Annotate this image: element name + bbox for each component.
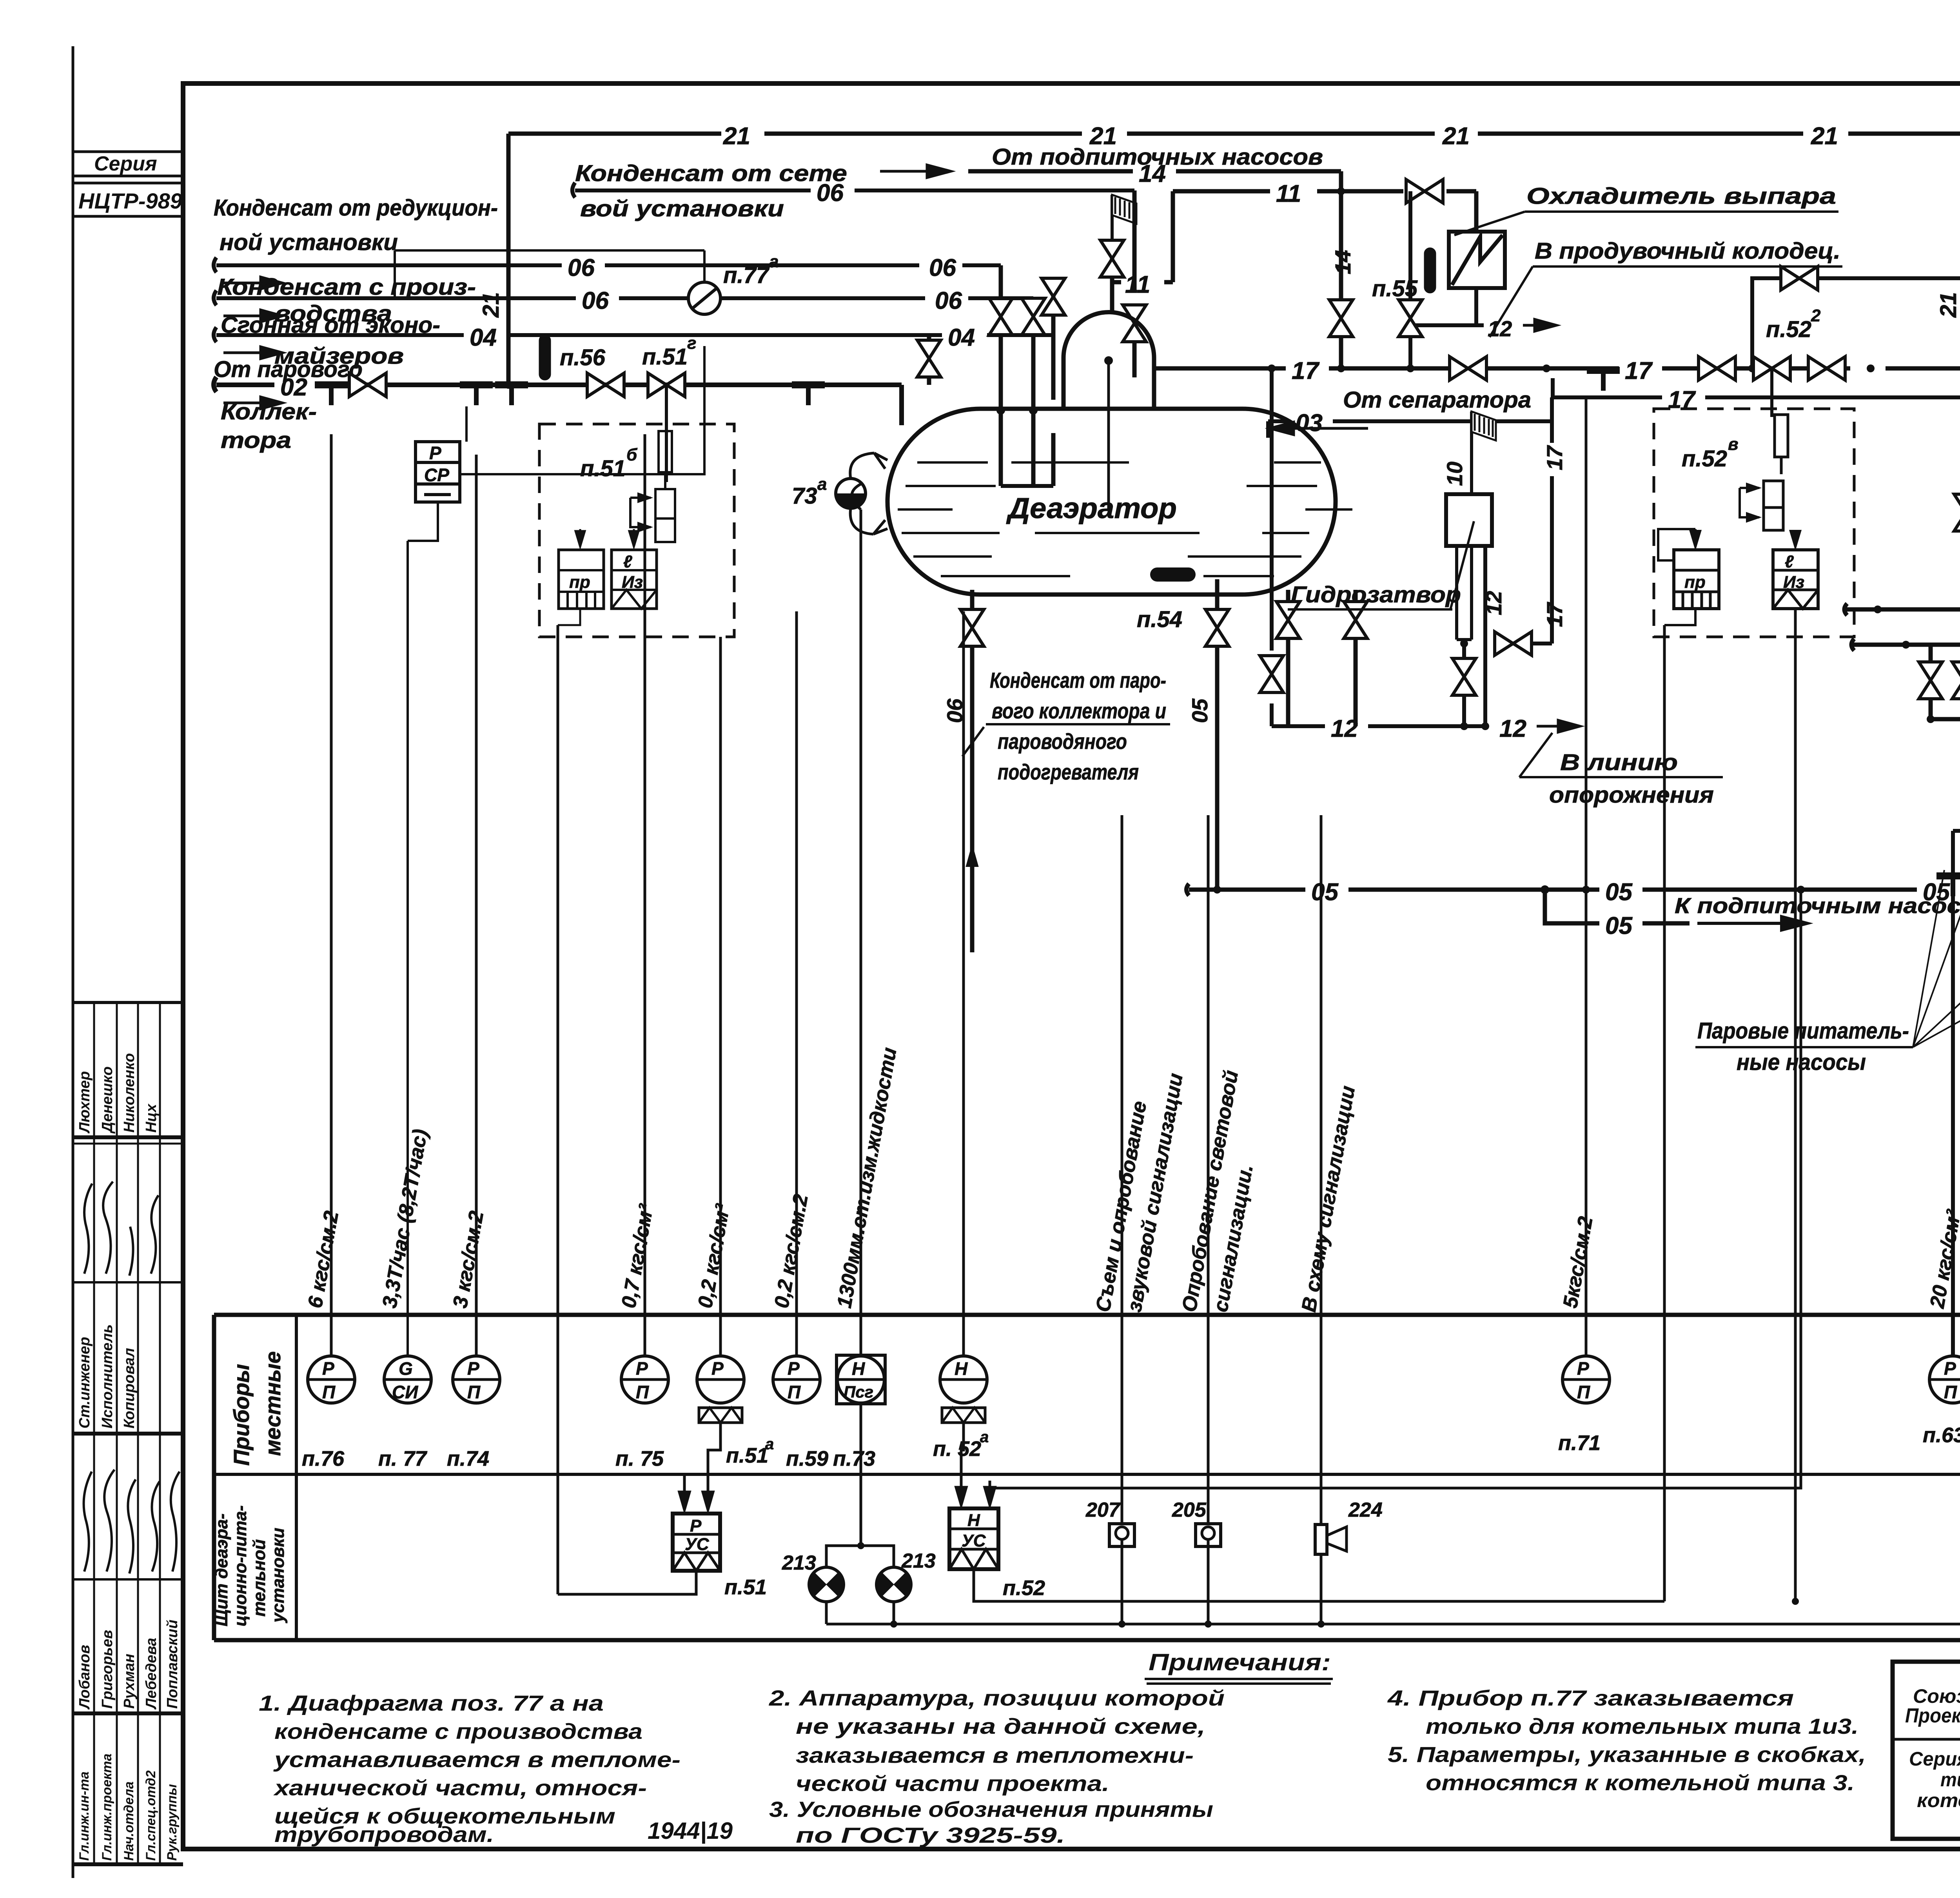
impulse line p.59 — [795, 611, 798, 1355]
svg-text:Исполнитель: Исполнитель — [99, 1324, 116, 1428]
water hatching inside tank — [898, 462, 1352, 576]
svg-text:02: 02 — [280, 374, 307, 401]
signature table column dividers — [94, 1002, 160, 1864]
svg-text:205: 205 — [1172, 1499, 1207, 1521]
svg-text:Гл.инж.ин-та: Гл.инж.ин-та — [77, 1771, 92, 1861]
impulse line p.75 — [644, 434, 646, 1355]
svg-text:05: 05 — [1605, 879, 1633, 906]
svg-text:21: 21 — [478, 292, 504, 318]
valve on 02 mid — [587, 373, 624, 397]
svg-text:4. Прибор п.77 заказывается: 4. Прибор п.77 заказывается — [1387, 1686, 1794, 1710]
NTsTR-989 box — [73, 183, 183, 216]
svg-text:пр: пр — [1684, 573, 1706, 592]
svg-text:04: 04 — [470, 324, 497, 351]
svg-text:Н: Н — [967, 1511, 980, 1530]
relay button 205 — [1196, 1524, 1221, 1546]
thermometer p.56 — [539, 335, 551, 380]
svg-text:только для котельных типа 1: только для котельных типа 1и3. — [1426, 1714, 1858, 1738]
input arrows into p.52 — [956, 1481, 995, 1505]
svg-text:подогревателя: подогревателя — [998, 760, 1139, 784]
svg-text:Союзмашстройпроект: Союзмашстройпроект — [1913, 1685, 1960, 1707]
gauge p.63 — [1923, 1356, 1960, 1447]
svg-text:вой установки: вой установки — [580, 196, 784, 221]
svg-text:а: а — [769, 252, 779, 271]
flowmeter p.77 — [378, 1356, 431, 1470]
svg-text:П: П — [1577, 1382, 1590, 1402]
svg-text:трубопроводам.: трубопроводам. — [274, 1822, 494, 1847]
svg-text:П: П — [636, 1382, 649, 1402]
lamp wiring to p.73 — [826, 1404, 894, 1567]
svg-text:Рук.группы: Рук.группы — [165, 1784, 180, 1861]
svg-text:Конденсат от паро-: Конденсат от паро- — [990, 668, 1166, 692]
pipe support on 17 — [1587, 370, 1620, 391]
signal line PR loop down — [558, 609, 580, 625]
IZ box in p.52v — [1773, 550, 1818, 609]
signal loop PR p.52v — [1664, 609, 1695, 625]
svg-text:Р: Р — [1944, 1358, 1956, 1379]
internal sparge pipe — [1107, 361, 1110, 509]
svg-text:Григорьев: Григорьев — [99, 1630, 116, 1709]
svg-text:а: а — [980, 1428, 989, 1446]
wire 21 riser left — [506, 134, 511, 385]
transmitter p.51a — [697, 1356, 774, 1467]
svg-text:Р: Р — [711, 1358, 724, 1379]
svg-text:06: 06 — [929, 254, 956, 281]
svg-text:П: П — [1944, 1382, 1957, 1402]
svg-text:224: 224 — [1348, 1499, 1383, 1521]
valve + drop to dome from 06a — [1132, 190, 1137, 377]
thermometer p.55 — [1424, 248, 1436, 293]
deaerator tank shell — [887, 409, 1336, 595]
svg-text:Н: Н — [955, 1358, 968, 1379]
relay button 207 — [1109, 1524, 1134, 1546]
strip label column divider — [295, 1315, 298, 1640]
note 4 and 5 — [1387, 1686, 1866, 1795]
svg-text:Конденсат с произ-: Конденсат с произ- — [217, 274, 476, 300]
pipe 06 reduktsionnaya — [214, 257, 1001, 272]
svg-text:213: 213 — [782, 1552, 816, 1574]
svg-text:06: 06 — [568, 254, 595, 281]
rotated department titles band 6 — [77, 1753, 180, 1861]
svg-text:Щит деаэра-: Щит деаэра- — [212, 1514, 231, 1626]
svg-text:21: 21 — [1936, 292, 1960, 318]
svg-text:П: П — [788, 1382, 801, 1402]
flag 10 on separator pot — [1472, 412, 1496, 457]
svg-text:Из: Из — [622, 573, 643, 592]
svg-text:п.71: п.71 — [1558, 1431, 1601, 1455]
leader lines to pumps — [1913, 798, 1960, 1047]
svg-text:1. Диафрагма поз. 77 а на: 1. Диафрагма поз. 77 а на — [259, 1691, 604, 1715]
pipe 14 — [968, 171, 1341, 368]
pipe 12 drain header — [1272, 724, 1485, 728]
svg-text:К подпиточным насосам: К подпиточным насосам — [1675, 893, 1960, 918]
svg-text:конденсате с производства: конденсате с производства — [274, 1719, 642, 1744]
svg-text:Серия унифицированных: Серия унифицированных — [1909, 1748, 1960, 1770]
signal line audio alarm — [1121, 815, 1123, 1524]
orifice p.77a — [688, 282, 720, 314]
pump A discharge to p.63 — [1953, 816, 1960, 1355]
dome vent line with flag — [1110, 240, 1114, 312]
valve drop 04 to vessel — [1051, 280, 1056, 486]
svg-text:06: 06 — [817, 179, 844, 207]
svg-text:устанавливается в тепломе-: устанавливается в тепломе- — [273, 1747, 681, 1772]
svg-text:ной установки: ной установки — [220, 230, 398, 255]
svg-text:п.52: п.52 — [1003, 1576, 1045, 1600]
svg-text:п.51: п.51 — [580, 456, 626, 481]
svg-text:12: 12 — [1499, 715, 1526, 742]
PR box in p.51b — [559, 550, 604, 609]
valve to hydroseal — [1495, 632, 1532, 655]
pipe supports on 02 — [315, 385, 348, 405]
svg-text:Р: Р — [322, 1358, 334, 1379]
svg-text:типовых проектов: типовых проектов — [1940, 1769, 1960, 1791]
p.51 output wire to valve servo — [558, 625, 696, 1594]
svg-text:Поплавский: Поплавский — [164, 1620, 181, 1709]
panel regulator N/US p.52 — [949, 1508, 998, 1569]
gauge p.71 — [1558, 1356, 1610, 1455]
drop 05 from tank bottom — [1215, 579, 1220, 890]
sheet trim line left — [72, 46, 74, 1878]
svg-text:тельной: тельной — [250, 1539, 269, 1617]
gauge p.76 — [302, 1356, 355, 1470]
svg-text:Р: Р — [467, 1358, 479, 1379]
svg-text:21: 21 — [1811, 123, 1838, 150]
svg-text:СР: СР — [424, 465, 449, 485]
signature table horizontal rules — [73, 1001, 183, 1004]
svg-text:Нач.отдела: Нач.отдела — [122, 1782, 136, 1861]
pipe 03 from separator — [1268, 421, 1552, 438]
svg-text:П: П — [467, 1382, 481, 1402]
IZ box in p.51b — [612, 550, 657, 609]
svg-text:п.51: п.51 — [726, 1444, 768, 1467]
svg-text:73: 73 — [792, 483, 817, 509]
svg-text:Р: Р — [636, 1358, 648, 1379]
svg-text:п.52: п.52 — [1682, 446, 1727, 471]
svg-text:п. 75: п. 75 — [615, 1447, 664, 1470]
svg-text:G: G — [399, 1358, 413, 1379]
svg-text:Конденсат от редукцион-: Конденсат от редукцион- — [214, 195, 498, 221]
positioner in p.51b — [655, 489, 675, 518]
rotated signature squiggles band 2 — [84, 1182, 158, 1276]
svg-text:п.59: п.59 — [786, 1447, 828, 1470]
svg-text:ческой части проекта.: ческой части проекта. — [796, 1771, 1109, 1796]
PR box in p.52v — [1674, 550, 1719, 609]
valve on 11 line — [1406, 179, 1443, 203]
pipe 06 proizvodstvo — [214, 290, 1033, 305]
svg-text:21: 21 — [1442, 123, 1470, 150]
gauge p.59 — [773, 1356, 828, 1470]
svg-text:п.52: п.52 — [1766, 317, 1811, 342]
valve on vent — [1100, 240, 1124, 277]
svg-text:п. 77: п. 77 — [378, 1447, 428, 1470]
horn 224 — [1315, 1525, 1327, 1554]
pipe 05 branch to feed pumps — [1545, 890, 1690, 923]
svg-text:Паровые питатель-: Паровые питатель- — [1697, 1018, 1909, 1044]
level float 73a — [836, 479, 866, 508]
svg-text:06: 06 — [935, 287, 962, 314]
svg-text:17: 17 — [1292, 357, 1319, 384]
pipe 04 left — [214, 327, 1053, 342]
signal wire from IZ p.52v — [1794, 610, 1797, 1601]
svg-text:п.76: п.76 — [302, 1447, 345, 1470]
valve on 17 at deaerator — [1450, 357, 1486, 380]
svg-text:12: 12 — [1488, 316, 1512, 341]
svg-text:Лебедева: Лебедева — [143, 1638, 160, 1710]
svg-text:котельных с котлами: котельных с котлами — [1917, 1789, 1960, 1811]
bottom outlet left with valve to 12 line — [1286, 590, 1290, 726]
svg-text:а: а — [817, 475, 827, 494]
svg-text:Проектный институт №1: Проектный институт №1 — [1905, 1704, 1960, 1727]
svg-text:11: 11 — [1276, 180, 1301, 207]
svg-text:п.51: п.51 — [642, 344, 688, 370]
svg-text:Люхтер: Люхтер — [76, 1071, 93, 1134]
svg-text:Деаэратор: Деаэратор — [1006, 492, 1177, 524]
inlet nozzle dots — [1104, 356, 1113, 365]
pipe 17 drop to hydroseal — [1531, 397, 1552, 644]
svg-text:п.74: п.74 — [447, 1447, 489, 1470]
impulse line p.74 — [475, 455, 478, 1355]
svg-text:не указаны на данной схеме: не указаны на данной схеме, — [796, 1714, 1205, 1738]
svg-text:Копировал: Копировал — [121, 1348, 138, 1428]
transmitter p.52a — [933, 1356, 989, 1461]
svg-text:05: 05 — [1187, 698, 1212, 723]
svg-text:213: 213 — [901, 1550, 936, 1572]
svg-text:2: 2 — [1811, 306, 1821, 325]
impulse line p.73 level — [860, 509, 862, 1355]
svg-text:П: П — [322, 1382, 336, 1402]
svg-text:05: 05 — [1605, 912, 1633, 939]
rotated signature squiggles band 4 — [84, 1470, 180, 1574]
svg-text:относятся к котельной типа 3: относятся к котельной типа 3. — [1426, 1770, 1855, 1795]
valve below 11 line right — [1408, 191, 1412, 368]
hydroseal standpipe — [1457, 546, 1472, 640]
signal bus to right lamp — [826, 1602, 1960, 1624]
svg-text:установки: установки — [269, 1528, 288, 1623]
rotated signer names band 1 — [76, 1053, 160, 1134]
svg-text:а: а — [765, 1436, 774, 1453]
instrument strip outer box — [214, 1315, 1960, 1640]
svg-text:п.63: п.63 — [1923, 1423, 1960, 1447]
signal line alarm circuit — [1320, 815, 1323, 1525]
signal lamps 213 — [809, 1567, 844, 1602]
svg-text:Серия: Серия — [94, 152, 157, 175]
pipe drop 06b to vessel with valve — [999, 265, 1003, 486]
svg-text:21: 21 — [723, 123, 750, 150]
impulse lines to R/SR box — [408, 406, 466, 1355]
svg-text:тора: тора — [221, 428, 291, 453]
svg-text:ханической части, относя-: ханической части, относя- — [273, 1775, 647, 1800]
svg-text:п. 52: п. 52 — [933, 1437, 981, 1461]
svg-text:УС: УС — [685, 1535, 710, 1554]
svg-text:п.54: п.54 — [1137, 607, 1182, 632]
svg-text:06: 06 — [582, 287, 609, 314]
thermometer p.54 horizontal — [1150, 567, 1196, 582]
rotated job titles band 3 — [76, 1324, 138, 1428]
valve on 02 — [349, 373, 386, 397]
drop 06 from tank bottom — [970, 590, 975, 952]
impulse bypass thin line around p.77a — [395, 250, 704, 298]
svg-text:Примечания:: Примечания: — [1149, 1649, 1331, 1675]
svg-text:17: 17 — [1625, 357, 1653, 384]
dashed instrument box p.52v — [1654, 409, 1854, 637]
svg-text:СИ: СИ — [392, 1382, 418, 1402]
svg-text:Конденсат от сете: Конденсат от сете — [575, 161, 847, 186]
svg-text:по ГОСТу 3925-59.: по ГОСТу 3925-59. — [796, 1823, 1065, 1847]
svg-text:вого коллектора и: вого коллектора и — [992, 698, 1166, 723]
svg-text:12: 12 — [1481, 591, 1506, 615]
svg-text:Р: Р — [429, 443, 441, 463]
svg-text:Из: Из — [1783, 573, 1804, 592]
svg-text:14: 14 — [1330, 250, 1355, 274]
svg-text:03: 03 — [1296, 410, 1323, 437]
svg-text:От сепаратора: От сепаратора — [1343, 387, 1531, 413]
svg-text:17: 17 — [1542, 445, 1567, 470]
title col1 divider — [1893, 1738, 1960, 1741]
svg-text:б: б — [626, 445, 638, 464]
pipe 04 feed header 1 — [1844, 603, 1960, 616]
svg-text:Гидрозатвор: Гидрозатвор — [1291, 582, 1461, 607]
svg-text:Охладитель выпара: Охладитель выпара — [1526, 183, 1836, 209]
regulator box R/SR — [416, 442, 460, 502]
svg-text:3. Условные обозначения прин: 3. Условные обозначения приняты — [769, 1797, 1213, 1822]
signal line light alarm — [1207, 815, 1210, 1524]
svg-text:п.56: п.56 — [560, 345, 606, 370]
impulse line from orifice to box — [460, 346, 704, 474]
pipe 05 header — [1187, 884, 1960, 896]
pipe drop 06c to vessel with valve — [1031, 298, 1036, 486]
svg-text:п.77: п.77 — [723, 263, 770, 288]
svg-text:г: г — [687, 334, 696, 353]
svg-text:05: 05 — [1311, 879, 1339, 906]
svg-text:Лобанов: Лобанов — [76, 1645, 93, 1710]
svg-text:пр: пр — [569, 573, 590, 592]
deaerator dome — [1063, 312, 1154, 409]
svg-text:заказывается в теплотехни-: заказывается в теплотехни- — [796, 1743, 1194, 1767]
svg-text:207: 207 — [1085, 1499, 1121, 1521]
svg-text:17: 17 — [1542, 602, 1567, 627]
gate valves around control valve p.52-2 — [1699, 357, 1735, 380]
control valve p.51g with stem — [648, 373, 685, 397]
svg-text:Р: Р — [1577, 1358, 1589, 1379]
svg-text:опорожнения: опорожнения — [1549, 782, 1714, 808]
signal line p.51a — [719, 637, 722, 1355]
svg-text:Нцх: Нцх — [143, 1103, 160, 1133]
positioner in p.52v — [1764, 481, 1783, 508]
vapour cooler heat exchanger — [1449, 232, 1505, 288]
gauge p.74 — [447, 1356, 500, 1470]
svg-text:ционно-пита-: ционно-пита- — [231, 1505, 250, 1626]
strip row divider — [214, 1473, 1960, 1476]
svg-text:Денешко: Денешко — [99, 1066, 116, 1134]
pipe 11 upper — [1173, 191, 1476, 282]
float linkages — [850, 453, 887, 534]
p.52 output wire to p.52v servo — [974, 625, 1664, 1601]
svg-text:В продувочный колодец.: В продувочный колодец. — [1535, 238, 1840, 264]
pipe 06 setevoy — [572, 183, 1134, 198]
hydroseal pot — [1446, 494, 1492, 546]
svg-text:В линию: В линию — [1560, 750, 1678, 775]
gauge p.75 — [615, 1356, 668, 1470]
impulse line p.76 — [330, 434, 333, 1355]
svg-text:пароводяного: пароводяного — [998, 729, 1127, 754]
title block frame — [1893, 1662, 1960, 1839]
pipe 21 top header — [508, 132, 1960, 136]
hydroseal drop line 12 — [1483, 546, 1487, 726]
rotated pressure labels — [304, 1046, 1960, 1314]
pipe 17 lower — [1553, 378, 1960, 397]
svg-text:1944|19: 1944|19 — [648, 1818, 733, 1844]
svg-text:Николенко: Николенко — [121, 1053, 138, 1133]
svg-text:2. Аппаратура, позиции котор: 2. Аппаратура, позиции которой — [769, 1686, 1225, 1710]
svg-text:НЦТР-989: НЦТР-989 — [78, 189, 182, 213]
svg-text:ℓ: ℓ — [623, 552, 632, 571]
note 2 and 3 — [769, 1686, 1225, 1847]
pipe 04 feed header 2 — [1851, 638, 1960, 651]
svg-text:Р: Р — [788, 1358, 800, 1379]
note 1 — [259, 1691, 681, 1847]
svg-text:10: 10 — [1442, 462, 1467, 486]
HE drain piping with 12 label — [1410, 288, 1484, 325]
svg-text:Р: Р — [690, 1516, 702, 1535]
pipe 11 stub at dome vent — [1112, 280, 1173, 285]
panel regulator R/US p.51 — [673, 1514, 720, 1571]
svg-text:14: 14 — [1139, 160, 1166, 187]
svg-text:п.73: п.73 — [833, 1447, 875, 1470]
svg-text:Н: Н — [852, 1358, 865, 1379]
svg-text:Приборы: Приборы — [229, 1364, 254, 1466]
svg-text:Рухман: Рухман — [121, 1654, 138, 1709]
pipe 02 collector — [214, 377, 902, 392]
svg-text:Гл.инж.проекта: Гл.инж.проекта — [100, 1753, 114, 1861]
level indicator p.73 — [833, 1355, 885, 1470]
svg-text:11: 11 — [1125, 271, 1150, 298]
svg-text:5. Параметры, указанные в ско: 5. Параметры, указанные в скобках, — [1388, 1742, 1866, 1767]
svg-text:04: 04 — [948, 324, 975, 351]
level sensor in p.51b — [659, 431, 672, 472]
svg-text:в: в — [1728, 435, 1739, 454]
svg-text:Ст.инженер: Ст.инженер — [76, 1337, 93, 1428]
svg-text:Псг: Псг — [844, 1383, 873, 1401]
svg-text:п.51: п.51 — [724, 1575, 767, 1599]
level sensor in p.52v — [1775, 415, 1788, 457]
pipe support on 02 east — [792, 385, 825, 405]
valve below hydroseal — [1462, 644, 1466, 726]
input arrows into p.51 — [679, 1474, 713, 1510]
Seriya box — [73, 152, 183, 176]
elbow 02 into vessel — [899, 385, 904, 425]
rotated names band 5 — [76, 1620, 181, 1710]
svg-text:местные: местные — [260, 1351, 285, 1456]
bottom outlet right with valve — [1354, 590, 1358, 726]
svg-text:УС: УС — [962, 1531, 986, 1550]
signal line p.52a — [962, 611, 965, 1355]
valve on 14 drop — [1329, 300, 1353, 337]
svg-text:12: 12 — [1331, 715, 1358, 742]
impulse line p.71 — [1585, 397, 1588, 1355]
svg-text:ℓ: ℓ — [1785, 552, 1794, 571]
dashed instrument box p.51b — [539, 424, 734, 637]
bypass p.52-2 — [1752, 278, 1960, 368]
pipe 17 upper main — [1154, 366, 1960, 371]
svg-text:Гл.спец.отд2: Гл.спец.отд2 — [143, 1770, 158, 1861]
pump cluster A suction/discharge valves — [1931, 609, 1960, 1355]
